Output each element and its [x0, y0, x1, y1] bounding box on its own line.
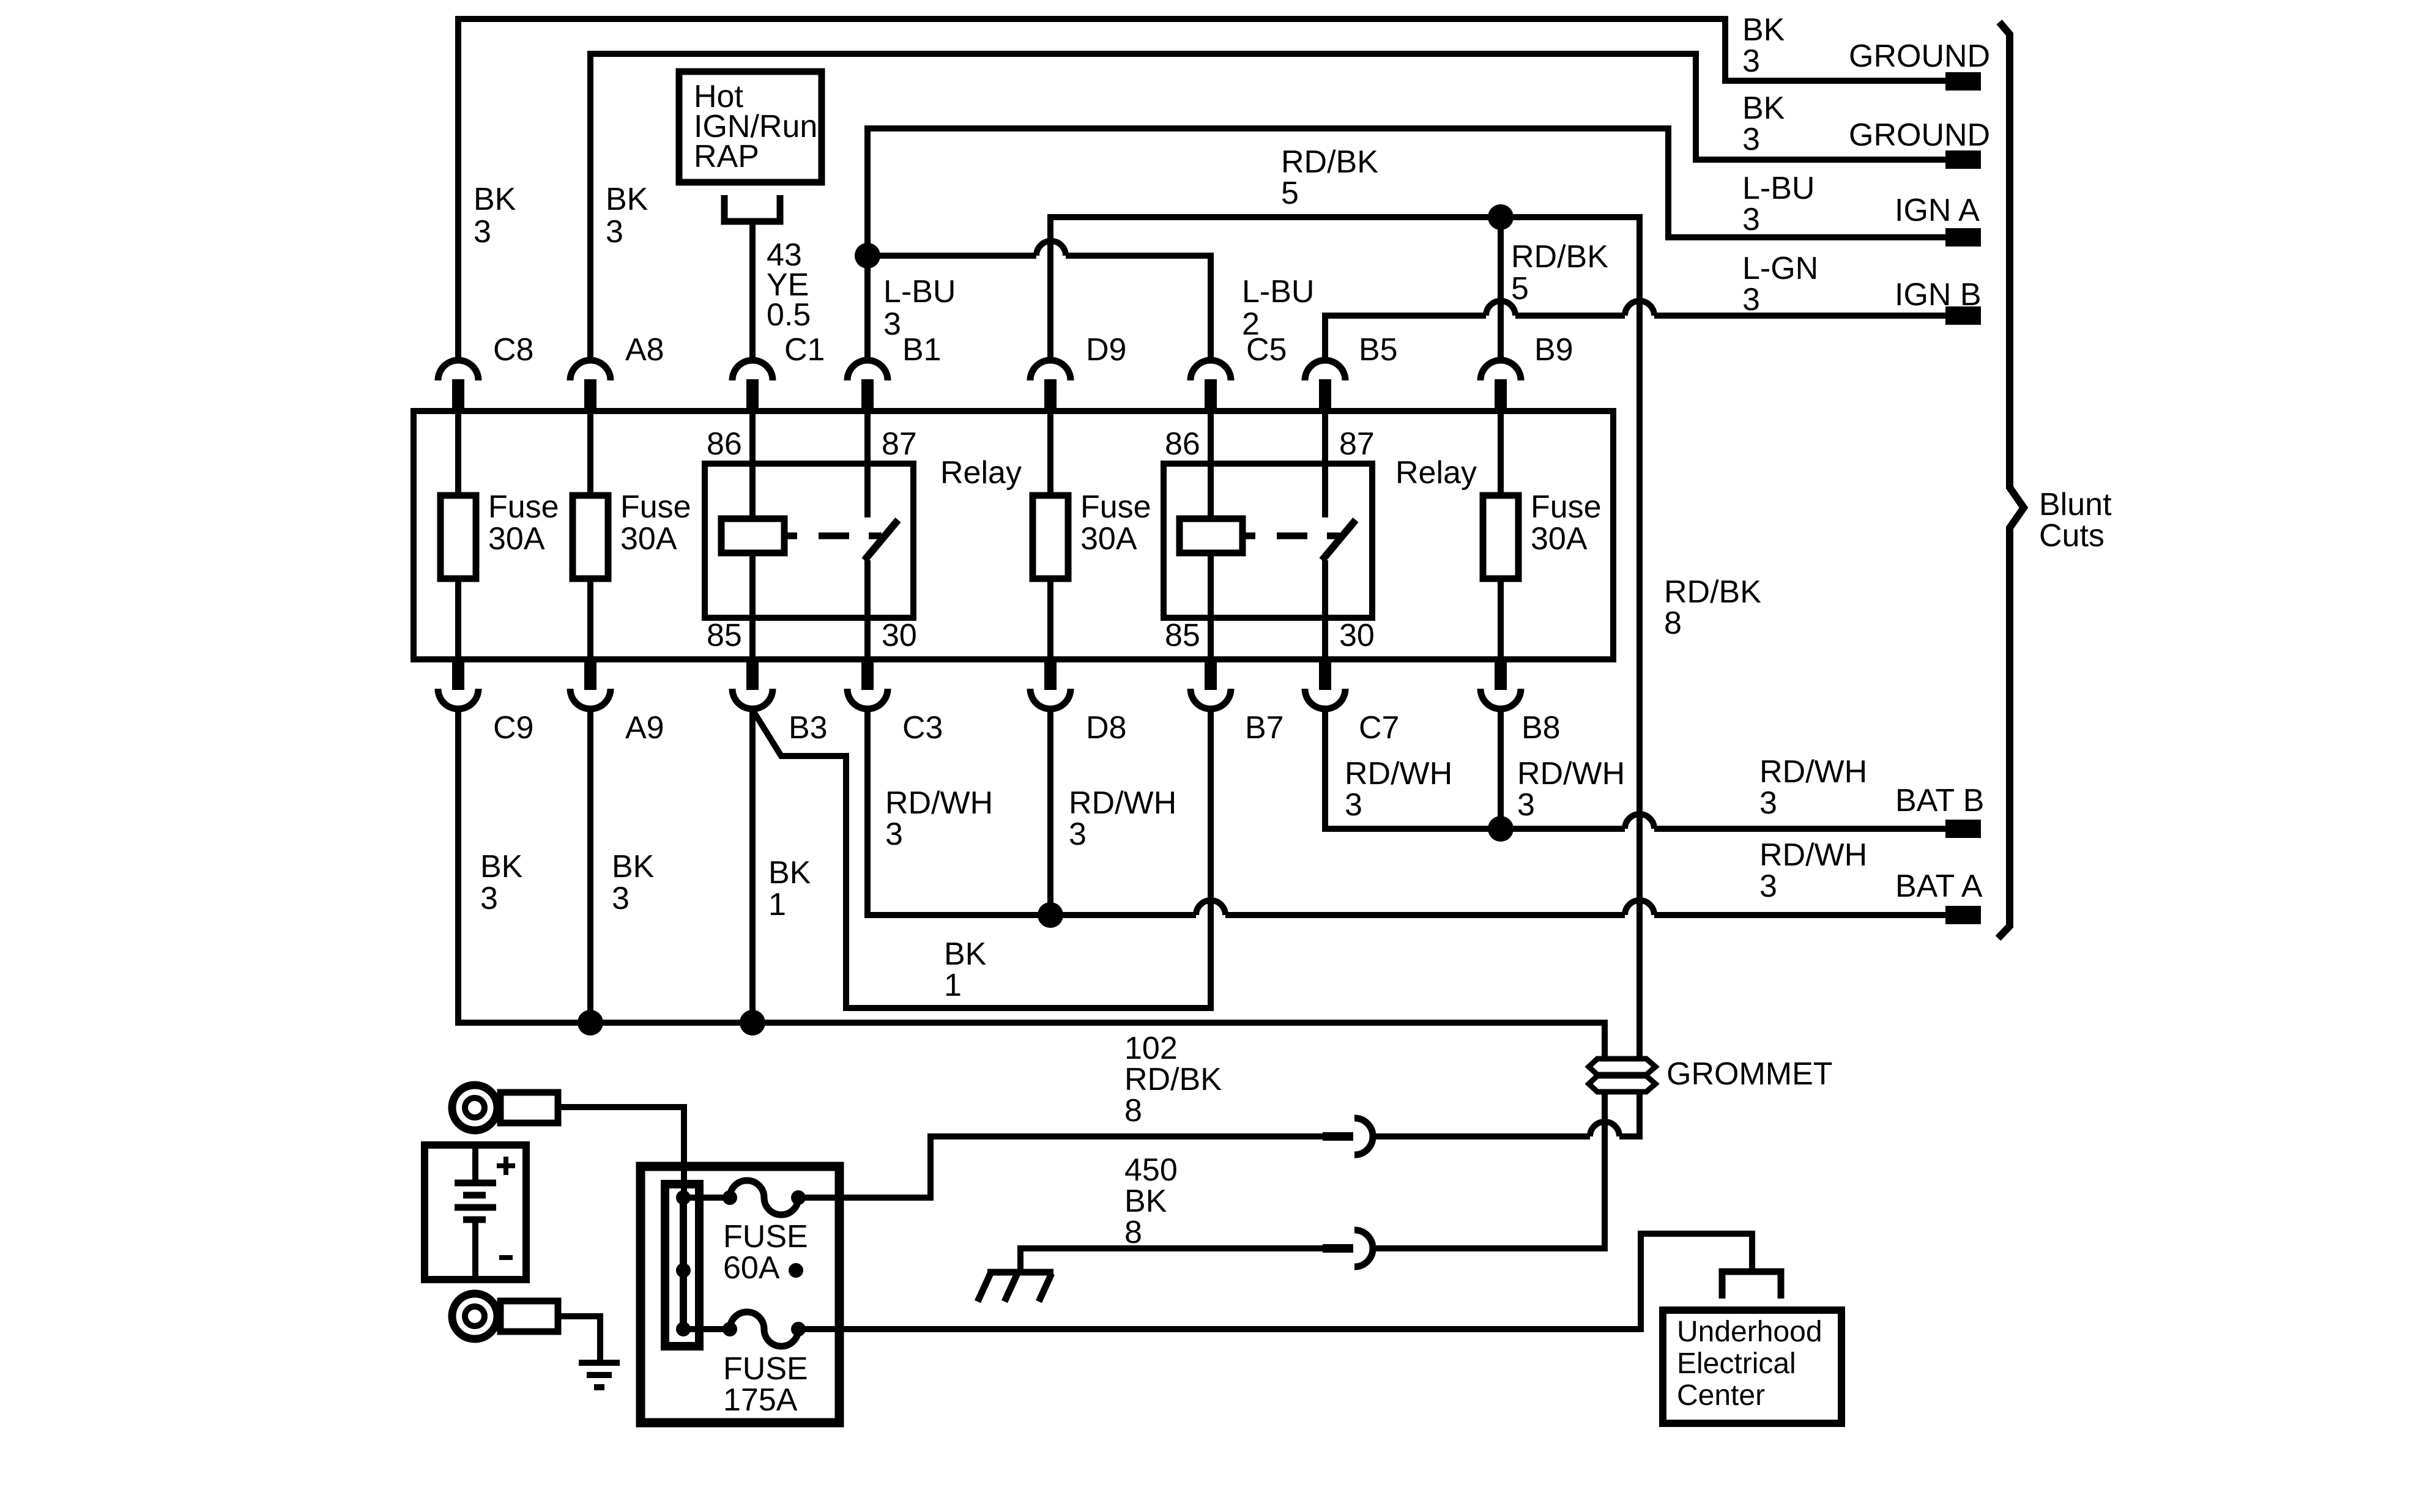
header bracket above UEC — [1722, 1272, 1781, 1299]
svg-text:3: 3 — [885, 817, 903, 852]
connector pin C1 (top) — [732, 360, 773, 414]
svg-text:30A: 30A — [488, 521, 545, 557]
wire W20: circuit 102 RD/BK 8 from 60A fuse to riser (bullet, hops BK drop) — [839, 1122, 1640, 1198]
junction: B8 on BAT B wire — [1488, 816, 1514, 842]
battery negative ring terminal — [452, 1294, 558, 1339]
label: RD/BK 8 (riser) — [1664, 574, 1761, 641]
wire W14: RD/WH 3 from pin D8 to BAT A wire — [1047, 706, 1053, 915]
svg-text:L-GN: L-GN — [1742, 251, 1818, 286]
svg-text:D9: D9 — [1086, 332, 1126, 368]
svg-text:BK: BK — [768, 855, 811, 891]
wire W10: BK 3 from pin A9 to ground bus — [587, 706, 593, 1023]
svg-text:Cuts: Cuts — [2039, 518, 2105, 554]
label: relay K1 pin 86 — [707, 426, 742, 462]
wire W15: RD/WH 3 from pin C7 to BAT B blunt cut (hops riser) — [1325, 706, 1948, 829]
fuse F2 30A — [573, 414, 608, 659]
svg-text:RAP: RAP — [694, 139, 759, 174]
wire W19: battery negative to ground — [558, 1316, 600, 1363]
svg-text:Fuse: Fuse — [620, 489, 691, 525]
relay K1 outline — [705, 464, 913, 618]
label: RD/WH 3 (C3) — [885, 785, 993, 852]
box: mega fuse block — [641, 1166, 839, 1423]
junction: rail middle — [676, 1263, 691, 1278]
label: FUSE 60A — [723, 1219, 808, 1286]
label: BK 1 (branch) — [944, 936, 987, 1003]
svg-text:3: 3 — [1742, 43, 1760, 79]
connector pin D9 (top) — [1030, 360, 1071, 414]
svg-text:8: 8 — [1124, 1215, 1142, 1250]
relay K1 dashed actuator link — [784, 533, 882, 539]
svg-text:3: 3 — [1345, 787, 1362, 823]
label: 43 YE 0.5 — [767, 237, 811, 333]
junction: B3 on ground bus — [740, 1010, 765, 1036]
label: BAT B — [1895, 783, 1984, 818]
label: pin C7 — [1359, 710, 1399, 746]
grommet symbol — [1589, 1059, 1655, 1092]
wire W18: battery positive feed to fuse block — [558, 1107, 684, 1198]
label: Fuse 30A (3) — [1080, 489, 1151, 557]
svg-text:GROMMET: GROMMET — [1666, 1056, 1833, 1092]
box: Hot IGN/Run RAP power source — [679, 72, 822, 182]
svg-text:30A: 30A — [620, 521, 677, 557]
label: pin C9 — [493, 710, 533, 746]
connector pin B1 (top) — [847, 360, 888, 414]
label: Blunt Cuts — [2039, 487, 2112, 554]
label: GROUND (2) — [1849, 117, 1990, 153]
box: Underhood Electrical Center — [1663, 1310, 1841, 1423]
svg-text:RD/WH: RD/WH — [1069, 785, 1176, 821]
wire W3: circuit 43 YE 0.5 from RAP to pin C1 — [749, 221, 756, 362]
connector pin D8 (bottom) — [1030, 659, 1071, 709]
connector pin C5 (top) — [1191, 360, 1231, 414]
svg-text:BK: BK — [606, 182, 648, 217]
wire W4: L-BU 3 from pin B1 to IGN A blunt cut — [867, 128, 1948, 362]
connector pin C9 (bottom) — [438, 659, 478, 709]
label: BK 3 (A9) — [612, 849, 655, 916]
label: RD/BK 5 (at B9) — [1511, 239, 1608, 306]
label: relay K2 pin 87 — [1339, 426, 1375, 462]
fuse F4 30A — [1483, 414, 1518, 659]
junction: D8 on BAT A wire — [1038, 902, 1063, 928]
label: relay K2 pin 85 — [1165, 618, 1200, 653]
fuse F1 30A — [440, 414, 476, 659]
svg-text:RD/WH: RD/WH — [1345, 756, 1452, 791]
svg-text:87: 87 — [1339, 426, 1375, 462]
label: GROMMET — [1666, 1056, 1833, 1092]
wire W21: circuit 450 BK 8 to ground G103 — [1020, 1248, 1323, 1273]
svg-text:B3: B3 — [789, 710, 828, 746]
relay K1 switch contact 87-30 — [864, 414, 898, 659]
svg-text:1: 1 — [768, 887, 786, 922]
terminal: IGN B blunt cut — [1945, 306, 1981, 325]
relay K2 coil (86-85) — [1179, 414, 1243, 659]
fuse FUSE 175A element — [683, 1312, 839, 1346]
svg-text:A8: A8 — [625, 332, 664, 368]
wire W6: RD/BK 5 from pin D9 to RD/BK 8 riser — [1050, 217, 1643, 362]
svg-text:FUSE: FUSE — [723, 1219, 808, 1254]
junction: A9 on ground bus — [578, 1010, 603, 1036]
ground symbol G103 (chassis) — [978, 1272, 1053, 1302]
label: L-BU 3 (B1) — [883, 274, 956, 342]
svg-text:BAT B: BAT B — [1895, 783, 1984, 818]
label: Fuse 30A (1) — [488, 489, 559, 557]
svg-text:3: 3 — [883, 306, 901, 342]
svg-text:30: 30 — [882, 618, 917, 653]
svg-text:A9: A9 — [625, 710, 664, 746]
wire W13: RD/WH 3 from pin C3 to BAT A blunt cut (hops B7, riser) — [867, 706, 1948, 915]
svg-text:0.5: 0.5 — [767, 297, 811, 333]
bullet connector on 450 BK 8 — [1323, 1230, 1373, 1267]
junction: rail top — [676, 1190, 691, 1205]
svg-text:L-BU: L-BU — [883, 274, 956, 309]
connector pin C3 (bottom) — [847, 659, 888, 709]
svg-text:RD/BK: RD/BK — [1664, 574, 1761, 610]
label: Relay (K2) — [1395, 455, 1477, 491]
connector pin B7 (bottom) — [1191, 659, 1231, 709]
label: relay K1 pin 87 — [882, 426, 917, 462]
connector pin C8 (top) — [438, 360, 478, 414]
label: pin B3 — [789, 710, 828, 746]
label: Relay (K1) — [940, 455, 1022, 491]
svg-text:C1: C1 — [784, 332, 825, 368]
terminal: BAT A blunt cut — [1945, 906, 1981, 924]
label: RD/WH 3 (C7) — [1345, 756, 1452, 823]
wire W1: BK 3 from pin C8 to GROUND blunt cut — [458, 19, 1948, 362]
label: BAT A — [1895, 869, 1983, 904]
svg-text:GROUND: GROUND — [1849, 39, 1990, 74]
svg-text:BK: BK — [612, 849, 655, 884]
svg-text:RD/WH: RD/WH — [885, 785, 993, 821]
label: BK 3 (A8 wire) — [606, 182, 648, 250]
fuse FUSE 60A element — [683, 1180, 839, 1215]
label: pin D8 — [1086, 710, 1126, 746]
label: pin C8 — [493, 332, 533, 368]
label: BK 3 (C9) — [480, 849, 523, 916]
label: 102 RD/BK 8 — [1124, 1031, 1222, 1128]
svg-text:3: 3 — [1517, 787, 1535, 823]
wire W22: 175A fuse output to Underhood Electrical Center — [839, 1234, 1752, 1329]
svg-text:3: 3 — [1759, 869, 1777, 904]
fuse holder rail — [665, 1184, 699, 1346]
ground symbol G1 (battery negative) — [579, 1363, 620, 1387]
label: L-BU 3 (IGN A) — [1742, 171, 1815, 237]
svg-text:FUSE: FUSE — [723, 1351, 808, 1387]
relay K2 dashed actuator link — [1243, 533, 1340, 539]
label: BK 3 (ground 1) — [1742, 12, 1785, 79]
label: pin C3 — [902, 710, 943, 746]
label: RD/WH 3 (B8) — [1517, 756, 1625, 823]
label: RD/WH 3 (D8) — [1069, 785, 1176, 852]
label: pin B9 — [1534, 332, 1573, 368]
label: pin A8 — [625, 332, 664, 368]
svg-text:30A: 30A — [1531, 521, 1588, 557]
svg-text:RD/WH: RD/WH — [1759, 837, 1867, 873]
svg-text:RD/WH: RD/WH — [1517, 756, 1625, 791]
svg-text:3: 3 — [1759, 785, 1777, 821]
svg-text:IGN B: IGN B — [1895, 277, 1982, 313]
header bracket under Hot box — [724, 195, 780, 221]
battery B1 — [425, 1145, 526, 1280]
wire W7: RD/BK 5 drop to pin B9 — [1498, 217, 1504, 362]
label: pin B7 — [1245, 710, 1284, 746]
relay K2 switch contact 87-30 — [1322, 414, 1356, 659]
relay K1 coil (86-85) — [721, 414, 784, 659]
label: relay K2 pin 30 — [1339, 618, 1375, 653]
svg-text:3: 3 — [606, 214, 623, 250]
label: BK 3 (C8 wire) — [474, 182, 516, 250]
svg-text:Center: Center — [1677, 1379, 1765, 1412]
svg-text:8: 8 — [1664, 606, 1682, 641]
svg-text:Underhood: Underhood — [1677, 1316, 1822, 1348]
fuse F3 30A — [1033, 414, 1068, 659]
svg-text:3: 3 — [474, 214, 491, 250]
svg-text:C3: C3 — [902, 710, 943, 746]
label: pin B8 — [1521, 710, 1561, 746]
junction: node on B1 wire — [855, 243, 880, 269]
bullet connector on 102 RD/BK 8 — [1323, 1118, 1373, 1155]
svg-text:RD/BK: RD/BK — [1281, 144, 1378, 180]
svg-text:Relay: Relay — [1395, 455, 1477, 491]
svg-text:BK: BK — [1742, 12, 1785, 48]
svg-text:3: 3 — [1742, 202, 1760, 237]
svg-text:86: 86 — [1165, 426, 1200, 462]
svg-text:BK: BK — [474, 182, 516, 217]
label: FUSE 175A — [723, 1351, 808, 1418]
connector pin A8 (top) — [570, 360, 611, 414]
label: BK 3 (ground 2) — [1742, 91, 1785, 157]
svg-text:86: 86 — [707, 426, 742, 462]
dot decoration beside 60A — [789, 1263, 803, 1278]
label: 450 BK 8 — [1124, 1152, 1178, 1250]
terminal: GROUND blunt cut 1 — [1945, 72, 1981, 91]
wire W12: BK 1 branch from B3 to pin B7 — [753, 706, 1211, 1008]
svg-text:BK: BK — [1742, 91, 1785, 126]
svg-text:BK: BK — [1124, 1184, 1167, 1219]
wire W16: RD/WH 3 from pin B8 to BAT B wire — [1498, 706, 1504, 829]
label: Fuse 30A (4) — [1531, 489, 1602, 557]
label: pin C5 — [1246, 332, 1287, 368]
label: RD/WH 3 (BAT A) — [1759, 837, 1867, 904]
svg-text:C8: C8 — [493, 332, 533, 368]
label: L-GN 3 — [1742, 251, 1818, 317]
svg-text:102: 102 — [1124, 1031, 1178, 1066]
label: pin B1 — [902, 332, 942, 368]
svg-text:Fuse: Fuse — [488, 489, 559, 525]
connector pin B8 (bottom) — [1480, 659, 1521, 709]
svg-text:85: 85 — [707, 618, 742, 653]
svg-text:30: 30 — [1339, 618, 1375, 653]
svg-text:B5: B5 — [1359, 332, 1398, 368]
label: relay K1 pin 85 — [707, 618, 742, 653]
svg-text:Fuse: Fuse — [1080, 489, 1151, 525]
svg-text:60A: 60A — [723, 1250, 780, 1286]
svg-text:RD/BK: RD/BK — [1124, 1062, 1222, 1097]
connector pin B3 (bottom) — [732, 659, 773, 709]
svg-text:C9: C9 — [493, 710, 533, 746]
brace: Blunt Cuts group — [1998, 22, 2024, 938]
connector pin A9 (bottom) — [570, 659, 611, 709]
svg-text:3: 3 — [1742, 122, 1760, 157]
relay K2 outline — [1164, 464, 1372, 618]
label: RD/WH 3 (BAT B) — [1759, 754, 1867, 821]
svg-text:IGN A: IGN A — [1895, 193, 1980, 228]
label: relay K2 pin 86 — [1165, 426, 1200, 462]
svg-text:RD/BK: RD/BK — [1511, 239, 1608, 275]
terminal: IGN A blunt cut — [1945, 228, 1981, 246]
svg-text:C5: C5 — [1246, 332, 1287, 368]
svg-text:RD/WH: RD/WH — [1759, 754, 1867, 790]
svg-text:85: 85 — [1165, 618, 1200, 653]
svg-text:3: 3 — [1742, 282, 1760, 317]
svg-text:Blunt: Blunt — [2039, 487, 2112, 522]
connector pin B9 (top) — [1480, 360, 1521, 414]
svg-text:B7: B7 — [1245, 710, 1284, 746]
terminal: GROUND blunt cut 2 — [1945, 150, 1981, 169]
svg-text:3: 3 — [480, 881, 498, 916]
label: battery + terminal — [497, 1157, 515, 1175]
label: pin B5 — [1359, 332, 1398, 368]
connector pin C7 (bottom) — [1305, 659, 1345, 709]
svg-text:B9: B9 — [1534, 332, 1573, 368]
label: L-BU 2 (C5) — [1242, 274, 1314, 342]
svg-text:175A: 175A — [723, 1382, 798, 1418]
terminal: BAT B blunt cut — [1945, 820, 1981, 838]
svg-text:L-BU: L-BU — [1242, 274, 1314, 309]
svg-text:450: 450 — [1124, 1152, 1178, 1188]
battery positive ring terminal — [452, 1085, 558, 1130]
junction: RD/BK 5 node at B9 — [1488, 204, 1514, 230]
label: pin D9 — [1086, 332, 1126, 368]
svg-text:5: 5 — [1281, 176, 1299, 211]
svg-text:C7: C7 — [1359, 710, 1399, 746]
label: pin C1 — [784, 332, 825, 368]
svg-text:B1: B1 — [902, 332, 942, 368]
svg-text:1: 1 — [944, 968, 962, 1003]
wire W5: L-BU 2 from B1 node to pin C5 (hops D9) — [867, 241, 1211, 362]
svg-text:30A: 30A — [1080, 521, 1137, 557]
svg-text:D8: D8 — [1086, 710, 1126, 746]
svg-text:87: 87 — [882, 426, 917, 462]
label: relay K1 pin 30 — [882, 618, 917, 653]
svg-text:3: 3 — [1069, 817, 1087, 852]
box: underhood fuse/relay center — [414, 411, 1613, 659]
svg-text:BK: BK — [480, 849, 523, 884]
wire W17: RD/BK 8 riser from relay box feed through grommet — [1636, 217, 1643, 1139]
svg-text:Fuse: Fuse — [1531, 489, 1602, 525]
svg-text:B8: B8 — [1521, 710, 1561, 746]
svg-text:3: 3 — [612, 881, 630, 916]
svg-text:Relay: Relay — [940, 455, 1022, 491]
svg-text:BK: BK — [944, 936, 987, 972]
svg-text:GROUND: GROUND — [1849, 117, 1990, 153]
wire W11: BK 1 from pin B3 to ground bus — [749, 706, 756, 1023]
label: battery - terminal — [499, 1255, 513, 1260]
svg-text:Electrical: Electrical — [1677, 1347, 1796, 1380]
connector pin B5 (top) — [1305, 360, 1345, 414]
svg-text:BAT A: BAT A — [1895, 869, 1983, 904]
label: pin A9 — [625, 710, 664, 746]
label: IGN B — [1895, 277, 1982, 313]
wire W9: BK 3 from pin C9 to ground bus, through grommet to 450 BK 8 — [458, 706, 1605, 1248]
junction: rail bottom — [676, 1322, 691, 1336]
label: IGN A — [1895, 193, 1980, 228]
label: GROUND (1) — [1849, 39, 1990, 74]
wire W2: BK 3 from pin A8 to GROUND blunt cut — [590, 54, 1948, 362]
label: Fuse 30A (2) — [620, 489, 691, 557]
wire W8: L-GN 3 from pin B5 to IGN B blunt cut (hops B9 and riser) — [1325, 301, 1948, 362]
label: RD/BK 5 (upper) — [1281, 144, 1378, 211]
label: BK 1 (B3) — [768, 855, 811, 922]
svg-text:8: 8 — [1124, 1093, 1142, 1128]
svg-text:5: 5 — [1511, 271, 1529, 306]
svg-text:L-BU: L-BU — [1742, 171, 1815, 206]
